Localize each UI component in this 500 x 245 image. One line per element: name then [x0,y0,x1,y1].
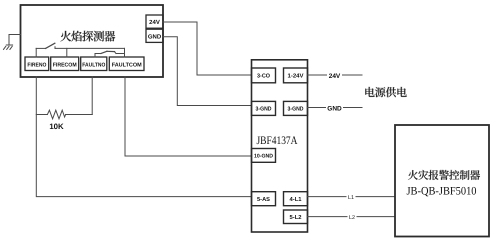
svg-text:FAULTCOM: FAULTCOM [112,62,142,68]
svg-text:3-GND: 3-GND [288,106,304,113]
svg-text:JBF4137A: JBF4137A [257,135,299,147]
wire 1-24V to power supply, label 24V [308,71,363,80]
svg-text:3-GND: 3-GND [256,106,272,113]
switch S2 fault contact [95,51,125,57]
label 火灾报警控制器 (fire alarm controller) [408,170,480,180]
svg-text:FAULTNO: FAULTNO [82,62,106,68]
svg-text:GND: GND [327,105,342,112]
wire FAULTCOM down and right to 10-GND [125,77,252,156]
flame detector box 火焰探测器 [21,5,164,77]
module terminal 5-AS [252,192,276,206]
controller box 火灾报警控制器 JB-QB-JBF5010 [395,125,489,237]
terminal FIRENO [25,57,49,71]
module terminal 4-L1 [284,192,308,206]
module terminal 5-L2 [284,210,308,224]
svg-text:FIRENO: FIRENO [27,62,47,68]
module terminal 3-GND [252,101,276,115]
wire GND to 3-GND [163,37,252,106]
terminal FIRECOM [51,57,79,71]
module terminal 10-GND [252,149,276,163]
terminal FAULTCOM [109,57,144,71]
terminal GND box [146,29,163,42]
wire FIRENO down and right to 5-AS [36,77,251,197]
svg-text:3-CO: 3-CO [257,73,270,80]
svg-text:L1: L1 [348,195,354,201]
svg-text:4-L1: 4-L1 [290,197,303,203]
switch S1 fire NO contact [36,43,124,57]
terminal FAULTNO [81,57,107,71]
label 电源供电 (power supply) [365,87,406,97]
module U1 JBF4137A box [252,60,308,232]
svg-text:10K: 10K [49,122,64,131]
wire 3-GND to power supply, label GND [308,103,363,112]
module terminal 3-CO [252,68,276,83]
ground (chassis) symbol [4,35,21,50]
svg-text:GND: GND [148,33,162,40]
svg-text:24V: 24V [149,19,160,26]
wire 4-L1 to controller, label L1 [308,193,396,201]
svg-text:FIRECOM: FIRECOM [53,62,77,68]
resistor R1 10K end-of-line [36,77,92,119]
terminal 24V box [146,15,163,28]
svg-text:L2: L2 [349,215,355,221]
svg-text:JB-QB-JBF5010: JB-QB-JBF5010 [407,186,477,198]
svg-text:10-GND: 10-GND [254,154,273,160]
svg-text:5-L2: 5-L2 [290,214,302,221]
svg-text:1-24V: 1-24V [288,73,304,80]
wire switch1 to FIRECOM [66,48,68,57]
wire switch line down to FAULTCOM [124,48,126,57]
label 火焰探测器 (flame detector) [60,31,115,42]
module terminal 3-GND [284,101,308,115]
wire 24V to 3-CO [163,22,252,75]
svg-text:24V: 24V [329,73,341,80]
wire 5-L2 to controller, label L2 [308,213,396,221]
module terminal 1-24V [284,68,308,83]
svg-text:5-AS: 5-AS [257,196,270,203]
